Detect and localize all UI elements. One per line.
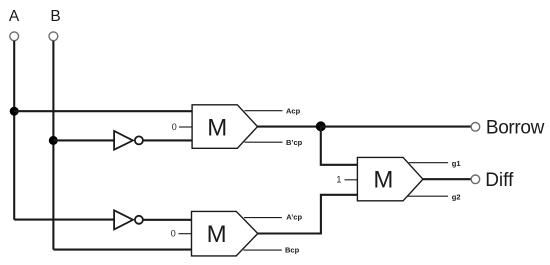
select 1 stub of mux U2 [345, 179, 358, 181]
mux U3 [192, 211, 258, 256]
svg-text:Diff: Diff [485, 170, 514, 191]
svg-text:M: M [373, 167, 393, 194]
svg-text:A: A [9, 8, 20, 25]
select 0 stub of mux U1 [179, 126, 192, 128]
stub B'cp [245, 141, 283, 143]
node junction B [49, 136, 58, 145]
svg-text:Bcp: Bcp [285, 245, 300, 254]
svg-text:1: 1 [336, 174, 341, 184]
wire B vertical [52, 41, 54, 250]
stub g2 [408, 195, 449, 197]
svg-text:g2: g2 [452, 192, 461, 201]
svg-text:B: B [50, 8, 60, 25]
node junction A [10, 107, 19, 116]
mux U2 [357, 157, 423, 200]
svg-text:g1: g1 [452, 159, 461, 168]
wire mux U2 output to Diff terminal [423, 178, 471, 180]
wire mux U3 output up to mux U2 input 2 [258, 195, 358, 234]
wire node down to mux U2 input 1 [321, 127, 358, 165]
wire A to inverter U5 [14, 219, 114, 221]
svg-text:A’cp: A’cp [286, 213, 302, 222]
svg-text:B’cp: B’cp [286, 138, 303, 147]
wire inverter U5 to mux U3 [143, 219, 191, 221]
stub Acp [245, 110, 283, 112]
wire to Borrow terminal [321, 126, 471, 128]
svg-text:M: M [207, 221, 227, 248]
wire inverter to mux U1 [143, 139, 192, 141]
svg-text:0: 0 [171, 229, 176, 239]
svg-text:Borrow: Borrow [486, 117, 545, 138]
input terminal A [10, 32, 19, 41]
wire A vertical [13, 41, 15, 220]
wire B to inverter [53, 139, 114, 141]
output terminal Borrow [471, 123, 480, 132]
inverter U4 (B') [114, 131, 143, 150]
stub A'cp [244, 217, 282, 219]
stub g1 [409, 162, 448, 164]
stub Bcp [243, 249, 281, 251]
output terminal Diff [471, 175, 480, 184]
mux U1 [192, 105, 257, 149]
input terminal B [49, 32, 58, 41]
svg-text:Acp: Acp [286, 106, 301, 115]
svg-text:M: M [207, 114, 227, 141]
node Borrow junction [316, 121, 326, 131]
select 0 stub of mux U3 [179, 233, 192, 235]
inverter U5 (A') [114, 210, 143, 229]
wire mux U1 output to node [258, 126, 321, 128]
svg-text:0: 0 [172, 122, 177, 132]
wire A to mux U1 input [14, 110, 192, 112]
wire B to mux U3 input 2 [53, 249, 191, 251]
